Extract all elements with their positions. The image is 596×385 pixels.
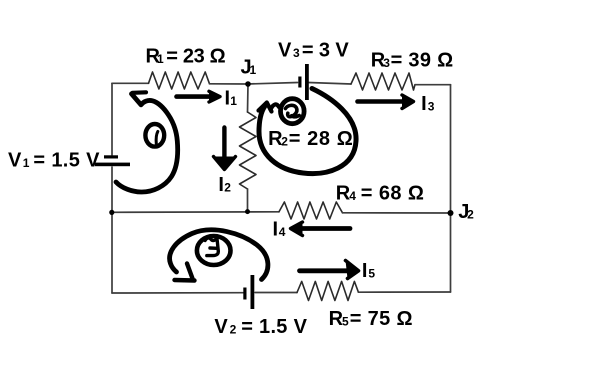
- svg-text:R5= 75 Ω: R5= 75 Ω: [329, 308, 413, 330]
- battery V2 long plate: [251, 275, 255, 309]
- battery V1 short plate: [104, 155, 118, 158]
- svg-text:R4= 68 Ω: R4= 68 Ω: [336, 183, 424, 205]
- loop 3 curved arrow: [170, 230, 268, 280]
- loop 1 curved arrow: [116, 94, 178, 192]
- resistor R5: [297, 281, 358, 300]
- wire V3 to R3: [309, 83, 352, 85]
- svg-text:J1: J1: [241, 57, 257, 79]
- svg-text:R2= 28 Ω: R2= 28 Ω: [268, 128, 353, 150]
- svg-text:I1: I1: [225, 88, 238, 110]
- loop 2 curved arrow: [259, 89, 356, 174]
- node left-middle junction: [109, 210, 114, 215]
- wire right vertical: [450, 85, 452, 292]
- wire R2 down to middle wire: [247, 189, 249, 212]
- current arrow I1: [177, 91, 221, 102]
- svg-text:V1= 1.5 V: V1= 1.5 V: [8, 150, 100, 172]
- wire bottom left segment: [112, 292, 243, 294]
- svg-text:I5: I5: [362, 260, 376, 282]
- wire R1 to J1: [210, 83, 249, 85]
- svg-text:R1= 23 Ω: R1= 23 Ω: [146, 45, 226, 67]
- svg-text:I4: I4: [273, 219, 286, 241]
- wire top-left segment: [112, 82, 149, 84]
- svg-text:I3: I3: [421, 93, 435, 115]
- wire middle left segment: [112, 211, 279, 214]
- wire J1 to V3: [248, 83, 298, 85]
- svg-text:V2= 1.5 V: V2= 1.5 V: [214, 316, 307, 338]
- node J1: [245, 81, 251, 87]
- current arrow I4: [291, 222, 351, 236]
- svg-text:J2: J2: [458, 201, 474, 223]
- node middle branch junction: [245, 209, 250, 214]
- battery V1 long plate: [95, 163, 130, 167]
- resistor R2: [240, 112, 257, 189]
- svg-text:V3= 3 V: V3= 3 V: [278, 40, 349, 62]
- current arrow I3: [358, 95, 414, 109]
- wire R3 to top-right corner: [415, 84, 451, 86]
- battery V3 long plate: [305, 64, 309, 100]
- wire V2 to R5: [255, 292, 297, 294]
- svg-text:I2: I2: [218, 174, 231, 196]
- battery V2 short plate: [243, 288, 246, 300]
- wire left vertical lower: [111, 167, 113, 293]
- loop 2 circled number 2: [281, 99, 305, 124]
- wire middle right segment to J2: [343, 212, 451, 214]
- battery V3 short plate: [298, 77, 301, 88]
- resistor R3: [351, 73, 415, 90]
- resistor R4: [279, 202, 343, 219]
- wire R5 to bottom-right corner: [358, 291, 450, 293]
- loop 1 circled number 1: [145, 124, 164, 147]
- node J2: [448, 210, 454, 216]
- wire branch J1 down to R2: [247, 84, 250, 112]
- loop 3 circled number 3: [197, 236, 231, 265]
- svg-text:R3= 39 Ω: R3= 39 Ω: [371, 50, 454, 72]
- resistor R1: [149, 72, 210, 89]
- current arrow I2: [214, 128, 236, 170]
- wire left vertical upper: [111, 83, 113, 155]
- current arrow I5: [300, 261, 359, 279]
